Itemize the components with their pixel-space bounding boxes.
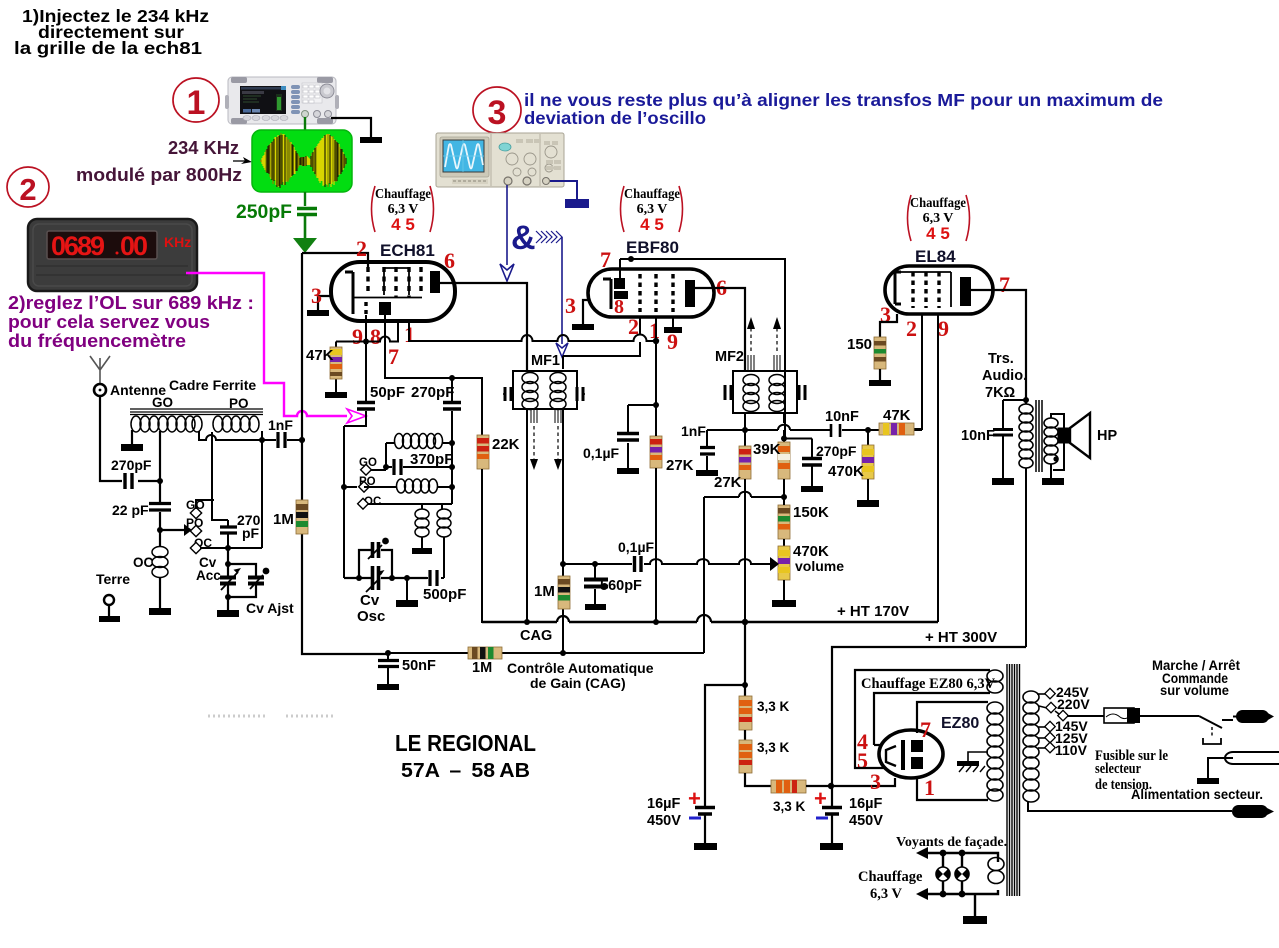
svg-text:Voyants de façade.: Voyants de façade.	[896, 835, 1007, 850]
svg-text:27K: 27K	[666, 457, 694, 474]
pin7 wire down	[385, 315, 452, 378]
svg-text:2: 2	[906, 316, 917, 341]
SECTION: audio	[681, 317, 1117, 647]
resistor 1M vertical (second)	[534, 576, 570, 609]
svg-text:560pF: 560pF	[600, 578, 642, 594]
wire OC coil to ground	[159, 577, 161, 608]
antenna wire + 270pF	[100, 396, 160, 481]
svg-text:7: 7	[999, 272, 1010, 297]
faint dots	[208, 715, 336, 718]
ground	[617, 468, 639, 474]
green wire below box	[304, 192, 306, 206]
potentiometer 470K body	[778, 546, 790, 580]
svg-text:22K: 22K	[492, 436, 520, 453]
center tap earth	[968, 752, 988, 761]
svg-text:3,3 K: 3,3 K	[757, 699, 790, 714]
resistor 3,3K b body	[739, 740, 752, 773]
anode	[685, 280, 695, 307]
taps	[1037, 694, 1047, 748]
ground	[694, 843, 717, 850]
svg-text:Terre: Terre	[96, 571, 130, 587]
ground	[585, 604, 606, 610]
magenta arrow	[347, 409, 366, 423]
slug arrows MF1	[531, 409, 537, 423]
ground	[992, 478, 1014, 485]
ground	[396, 600, 418, 607]
GO contact to 370pF	[371, 443, 386, 470]
capacitor 50pF	[344, 342, 366, 427]
svg-text:22 pF: 22 pF	[112, 502, 149, 518]
node	[299, 437, 305, 443]
capacitor 270pF ant	[125, 473, 132, 489]
node	[263, 568, 270, 575]
wire 150 to ground	[879, 369, 881, 380]
node	[1023, 397, 1029, 403]
primary bottom wire to plug	[1028, 802, 1232, 811]
coil PO	[213, 416, 223, 432]
ground	[869, 380, 891, 386]
coil osc feedback pair	[415, 509, 429, 519]
svg-text:27K: 27K	[714, 474, 742, 491]
wire 39K bottom lead	[783, 479, 785, 497]
capacitor 270pF det	[802, 459, 822, 466]
wire 470K top lead	[867, 430, 869, 445]
node	[449, 440, 455, 446]
wire osc PO coil ends	[364, 486, 452, 488]
generator soft keys	[291, 85, 300, 89]
ground	[1042, 478, 1064, 485]
GO right end down, 1nF line	[199, 431, 262, 440]
resistor 1M body	[296, 500, 308, 534]
bracket chauffage ECH81	[372, 186, 376, 232]
pin3 wire + ground	[318, 296, 331, 310]
node	[225, 561, 231, 567]
svg-text:5: 5	[857, 748, 868, 773]
capacitor 10nF out	[1003, 400, 1026, 478]
capacitor 370pF	[386, 466, 452, 468]
wire voyants to ground	[974, 894, 976, 916]
HV winding	[987, 702, 1003, 801]
ground	[307, 310, 329, 316]
selector arm	[1055, 711, 1059, 714]
node	[157, 527, 163, 533]
wire 150K leads	[783, 497, 785, 546]
tube ECH81	[302, 236, 659, 378]
plug top	[1233, 716, 1240, 718]
resistor 1M second body	[558, 576, 570, 609]
feed to 3.3K chain	[705, 622, 745, 806]
svg-text:3: 3	[311, 283, 322, 308]
wire 3,3K to node	[745, 773, 771, 786]
svg-text:3,3 K: 3,3 K	[773, 799, 806, 814]
svg-text:4 5: 4 5	[926, 224, 950, 243]
cathode	[895, 272, 901, 304]
capacitor 560pF	[594, 564, 596, 604]
Trs Audio primary coil	[1019, 404, 1033, 414]
modulated waveform	[262, 134, 343, 187]
svg-text:Chauffage EZ80 6,3V: Chauffage EZ80 6,3V	[861, 676, 996, 692]
ground	[377, 684, 399, 690]
ground	[820, 843, 843, 850]
coil PO	[213, 416, 259, 432]
wire MF2 primary to 27K	[744, 430, 746, 446]
anode heptode	[430, 271, 440, 293]
svg-text:7: 7	[920, 717, 931, 742]
blue wire scope down	[506, 185, 508, 265]
resistor 150 body	[874, 337, 886, 369]
bracket chauffage EBF80	[621, 186, 625, 232]
grid box	[901, 272, 951, 307]
heater loop wires	[855, 670, 990, 768]
+HT170 rail	[482, 621, 938, 624]
svg-text:110V: 110V	[1055, 742, 1088, 758]
SECTION: mf-if	[273, 353, 938, 691]
svg-text:+ HT 170V: + HT 170V	[837, 603, 909, 620]
svg-text:Audio.: Audio.	[982, 368, 1027, 384]
node	[356, 575, 362, 581]
MF2 primary bottom to det rail	[744, 413, 746, 430]
svg-text:selecteur: selecteur	[1095, 761, 1141, 777]
resistor 27K second	[714, 430, 751, 491]
svg-text:16µF: 16µF	[849, 796, 882, 812]
node	[383, 464, 389, 470]
resistor 3,3K c horizontal	[771, 780, 806, 814]
svg-text:7KΩ: 7KΩ	[985, 385, 1016, 401]
svg-text:1: 1	[187, 84, 206, 122]
generator output BNCs	[302, 111, 309, 118]
svg-text:47K: 47K	[306, 347, 334, 364]
wire 3,3K c to node	[806, 785, 831, 787]
GO left end ground	[131, 430, 133, 444]
svg-text:volume: volume	[795, 558, 844, 574]
cathode	[345, 272, 353, 314]
svg-text:Cv Ajst: Cv Ajst	[246, 600, 294, 616]
chauffage bracket ECH81	[372, 186, 434, 234]
MF2 transformer	[715, 317, 805, 413]
node	[940, 850, 947, 857]
chauffage bracket EL84	[908, 195, 970, 243]
coil osc GO	[395, 434, 404, 449]
svg-text:39K: 39K	[753, 441, 781, 458]
svg-text:3: 3	[488, 94, 507, 132]
AF line y564	[563, 559, 770, 564]
primary winding right	[1023, 691, 1039, 802]
tap wires	[1037, 693, 1046, 695]
svg-text:270pF: 270pF	[816, 443, 857, 459]
svg-text:7: 7	[388, 344, 399, 369]
resistor 150K	[778, 504, 829, 539]
green arrow down	[293, 238, 317, 253]
switch arm	[160, 529, 184, 531]
pin7 wire	[620, 259, 631, 278]
MF2 tuning capacitors	[725, 385, 731, 400]
tap contacts	[1045, 688, 1068, 752]
oscilloscope	[436, 133, 564, 187]
svg-text:150K: 150K	[793, 504, 829, 521]
svg-text:la grille de la ech81: la grille de la ech81	[14, 38, 202, 58]
coil OC	[152, 547, 168, 558]
det rail y430	[707, 429, 922, 431]
node	[225, 594, 231, 600]
svg-text:GO: GO	[152, 395, 173, 410]
svg-text:1: 1	[649, 318, 660, 343]
oscilloscope body	[436, 133, 564, 187]
EL84 grids	[911, 272, 914, 308]
svg-text:270pF: 270pF	[111, 457, 152, 473]
switch	[1199, 716, 1222, 728]
ground	[99, 616, 120, 622]
node	[781, 436, 787, 442]
resistor 27K first	[650, 436, 694, 474]
lamp voyant 2	[955, 867, 969, 881]
ground	[957, 761, 979, 766]
resistor 1M CAG body	[468, 647, 502, 659]
svg-text:3: 3	[565, 293, 576, 318]
svg-text:pF: pF	[242, 525, 260, 541]
svg-text:Chauffage: Chauffage	[624, 187, 680, 202]
osc lower coils	[422, 504, 442, 509]
MF1 transformer	[503, 353, 585, 470]
blue chevrons	[536, 231, 562, 243]
svg-text:OC: OC	[133, 555, 154, 570]
svg-text:HP: HP	[1097, 428, 1117, 444]
wire osc GO coil ends	[386, 442, 452, 444]
circled 2	[7, 167, 49, 207]
diode plates	[614, 278, 625, 289]
svg-text:4 5: 4 5	[640, 215, 664, 234]
resistor 3,3K c body	[771, 780, 806, 793]
svg-text:EZ80: EZ80	[941, 715, 979, 732]
SECTION: texts-top	[7, 6, 1163, 782]
svg-text:pour cela servez vous: pour cela servez vous	[8, 312, 210, 332]
resistor 150	[847, 336, 886, 369]
magenta wire counter to grid	[186, 273, 347, 416]
svg-text:6: 6	[444, 248, 455, 273]
PO right end down	[261, 431, 263, 548]
coil osc PO	[397, 479, 438, 493]
winding 6,3V EZ80	[987, 670, 1003, 682]
svg-text:1M: 1M	[472, 660, 492, 676]
capacitor 270pF osc	[451, 378, 453, 504]
circled 1	[173, 78, 219, 122]
wire gen to ground	[331, 118, 371, 137]
node	[742, 682, 748, 688]
svg-text:ECH81: ECH81	[380, 241, 435, 260]
svg-text:Osc: Osc	[357, 608, 385, 625]
svg-text:Alimentation secteur.: Alimentation secteur.	[1131, 787, 1263, 802]
svg-text:470K: 470K	[828, 463, 864, 480]
svg-text:Trs.: Trs.	[988, 351, 1014, 367]
svg-text:sur volume: sur volume	[1160, 683, 1229, 698]
lamp voyant 1	[936, 867, 950, 881]
svg-text:KHz: KHz	[164, 234, 191, 250]
node	[449, 464, 455, 470]
svg-text:8: 8	[614, 296, 624, 318]
EZ80 6.3 winding	[987, 670, 1003, 693]
SECTION: tubes	[302, 236, 1026, 622]
svg-text:Cv: Cv	[360, 592, 380, 609]
resistor 47K horizontal body	[879, 423, 914, 435]
volume pot 470K	[778, 543, 844, 580]
green modulation box	[252, 130, 352, 192]
ground	[772, 600, 796, 607]
blue wire to MF1	[561, 237, 563, 344]
svg-text:7: 7	[600, 247, 611, 272]
fuse wire	[1067, 715, 1104, 717]
node	[341, 484, 347, 490]
wire 47K leads	[335, 342, 337, 393]
generator bottom buttons	[243, 116, 251, 121]
pin9 wire	[365, 315, 367, 342]
svg-text:LE REGIONAL: LE REGIONAL	[395, 730, 536, 756]
resistor 39K	[753, 439, 790, 480]
scope knobs	[506, 153, 518, 165]
bracket chauffage EL84	[908, 195, 912, 241]
generator keys	[303, 85, 308, 88]
capacitor 500pF	[427, 537, 444, 578]
node	[404, 575, 410, 581]
EBF80 grids	[638, 274, 641, 312]
resistor 3,3K a	[739, 696, 790, 730]
wire 22K to HT rail	[482, 469, 526, 622]
svg-text:10nF: 10nF	[825, 409, 859, 425]
ground	[412, 548, 432, 554]
svg-text:CAG: CAG	[520, 628, 552, 644]
GO tap down	[159, 431, 161, 481]
grids	[640, 274, 673, 312]
capacitor 10nF det	[831, 424, 840, 437]
svg-text:&: &	[511, 219, 536, 257]
node	[959, 891, 966, 898]
svg-text:8: 8	[370, 324, 381, 349]
MF1 primary bottom to HT rail	[526, 409, 528, 622]
svg-text:16µF: 16µF	[647, 796, 680, 812]
svg-text:0,1µF: 0,1µF	[618, 539, 655, 555]
MF1 tuning capacitors	[505, 387, 511, 401]
node	[259, 437, 265, 443]
svg-text:450V: 450V	[849, 813, 883, 829]
coil GO	[131, 416, 141, 432]
resistor 22K	[477, 435, 520, 469]
circled 3	[473, 87, 521, 133]
node	[865, 427, 871, 433]
node	[560, 650, 566, 656]
svg-text:1M: 1M	[273, 511, 294, 528]
wiper arrow volume	[770, 557, 779, 571]
node	[389, 575, 395, 581]
svg-text:EL84: EL84	[915, 247, 956, 266]
svg-text:150: 150	[847, 336, 872, 353]
svg-text:2)reglez l’OL sur 689 kHz :: 2)reglez l’OL sur 689 kHz :	[8, 293, 254, 313]
capacitor 1nF second	[706, 430, 708, 470]
antenna mast	[90, 356, 110, 384]
tube envelope EL84	[885, 266, 993, 314]
svg-text:3: 3	[870, 769, 881, 794]
left rail	[302, 253, 388, 654]
generator keypad	[302, 83, 322, 103]
winding primary	[1023, 691, 1039, 703]
svg-text:EBF80: EBF80	[626, 238, 679, 257]
resistor 1M CAG horizontal	[468, 647, 502, 676]
resistor 47K horizontal	[879, 407, 914, 435]
node	[299, 437, 305, 443]
node	[628, 256, 634, 262]
speaker HP	[1051, 414, 1064, 428]
22pF	[159, 481, 161, 530]
pin2 wire	[302, 253, 368, 267]
svg-text:du fréquencemètre: du fréquencemètre	[8, 331, 186, 351]
pin1 rail to EBF80	[409, 321, 656, 341]
node	[592, 561, 598, 567]
svg-text:1nF: 1nF	[681, 423, 706, 439]
wire 470K to ground	[867, 479, 869, 500]
svg-text:Cadre Ferrite: Cadre Ferrite	[169, 377, 256, 393]
svg-text:de Gain (CAG): de Gain (CAG)	[530, 675, 626, 691]
GO contact wire	[196, 500, 214, 509]
capacitor 0,1uF first + 27K	[628, 405, 656, 468]
svg-text:1nF: 1nF	[268, 417, 293, 433]
svg-text:0689: 0689	[51, 231, 105, 261]
svg-text:2: 2	[628, 314, 639, 339]
resistor 3,3K a body	[739, 696, 752, 730]
green box with waveform	[252, 130, 352, 192]
resistor 1M vertical (left)	[273, 500, 308, 534]
frequency counter body	[28, 219, 197, 291]
triode grid dash	[364, 302, 367, 315]
cap 270pF right	[220, 527, 237, 533]
svg-text:370pF: 370pF	[410, 451, 453, 468]
svg-text:450V: 450V	[647, 813, 681, 829]
svg-text:220V: 220V	[1057, 696, 1090, 712]
function generator	[225, 77, 339, 124]
ground	[325, 392, 347, 398]
Trs Audio secondary coil	[1044, 418, 1058, 428]
coil osc GO	[395, 434, 443, 449]
ground	[149, 608, 171, 615]
node	[742, 619, 748, 625]
svg-text:9: 9	[352, 324, 363, 349]
coil GO	[131, 416, 202, 432]
SECTION: power	[647, 622, 1279, 924]
heater 6.3 winding bottom	[988, 858, 1004, 884]
x656 down to HT rail	[655, 405, 657, 622]
svg-text:deviation de l’oscillo: deviation de l’oscillo	[524, 108, 706, 128]
ground	[963, 916, 987, 924]
wire osc coil to ground	[421, 537, 423, 548]
SECTION: instruments	[28, 77, 970, 423]
resistor 22K body	[477, 435, 489, 469]
node	[959, 850, 966, 857]
winding HV secondary	[987, 702, 1003, 714]
svg-text:57A – 58 AB: 57A – 58 AB	[401, 760, 530, 782]
node	[742, 427, 748, 433]
node	[828, 783, 834, 789]
svg-text:4 5: 4 5	[391, 215, 415, 234]
MF1 secondary bottom down	[562, 409, 564, 653]
svg-text:Chauffage: Chauffage	[910, 196, 966, 211]
chauffage bracket EBF80	[621, 186, 683, 234]
1nF cap	[262, 439, 302, 441]
svg-text:270pF: 270pF	[411, 384, 454, 401]
svg-text:234 KHz: 234 KHz	[168, 138, 239, 158]
ground below	[406, 578, 408, 600]
svg-text:9: 9	[938, 316, 949, 341]
EZ80 anode wires	[917, 702, 988, 733]
blue hollow arrow 1	[500, 264, 514, 281]
node	[157, 478, 163, 484]
svg-text:50nF: 50nF	[402, 658, 436, 674]
green wire gen-box	[304, 117, 306, 131]
